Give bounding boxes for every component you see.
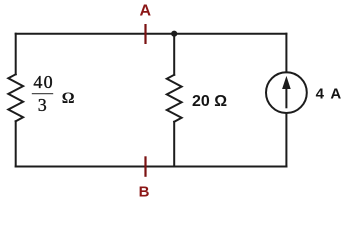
svg-text:3: 3 [38, 95, 47, 115]
svg-text:Ω: Ω [62, 90, 75, 107]
wire left-top lead [15, 34, 17, 75]
svg-text:4 A: 4 A [316, 85, 343, 102]
node B tick [144, 156, 146, 177]
current source I1 circle [266, 72, 307, 113]
wire bottom (node B rail) [16, 166, 287, 168]
wire right-bottom lead [285, 113, 287, 167]
svg-text:40: 40 [33, 72, 53, 92]
label R1 fraction bar [32, 93, 53, 95]
wire middle-bottom lead [173, 122, 175, 167]
wire middle-top lead [173, 34, 175, 75]
current source I1 arrow [283, 78, 290, 109]
svg-text:A: A [140, 3, 152, 20]
junction node dot [171, 31, 177, 37]
wire left-bottom lead [15, 121, 17, 166]
wire right-top lead [285, 34, 287, 72]
wire top (node A rail) [16, 33, 287, 35]
svg-text:20 Ω: 20 Ω [192, 93, 227, 110]
node A tick [144, 24, 146, 44]
svg-text:B: B [139, 183, 150, 200]
resistor R1 40/3 ohm zigzag [8, 74, 23, 121]
resistor R2 20 ohm zigzag [167, 75, 182, 122]
